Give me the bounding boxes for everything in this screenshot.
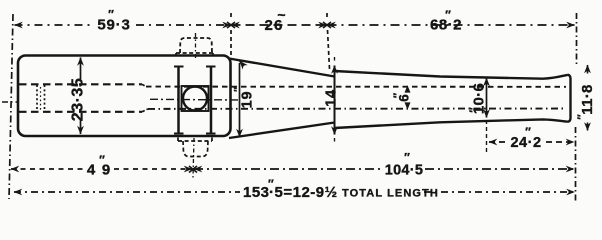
dim 19 vertical — [240, 61, 244, 66]
junction X at 231,25 — [227, 22, 235, 28]
centerline through trunnion — [150, 98, 240, 101]
junction X at 327,25 — [323, 22, 331, 28]
svg-text:4: 4 — [87, 162, 96, 179]
chamber step bottom — [142, 109, 148, 112]
total length line — [14, 191, 240, 193]
step face / dim 14 — [334, 66, 336, 135]
dim 11.8 arrows — [587, 65, 589, 74]
centerline left stub — [2, 101, 17, 103]
bore line bottom (chamber) — [19, 111, 142, 113]
svg-text:~: ~ — [277, 7, 285, 23]
right extension line lower — [575, 127, 577, 203]
dim 6 arrows — [405, 87, 409, 108]
bottom lug dashed — [178, 138, 212, 142]
extension below 10.6 — [486, 120, 488, 152]
svg-text:″: ″ — [468, 107, 480, 113]
bore line bottom (barrel) — [148, 108, 566, 110]
breech screw detail — [37, 85, 45, 112]
svg-text:14: 14 — [324, 89, 340, 107]
muzzle face — [568, 75, 571, 122]
top bump centerline — [195, 33, 197, 59]
junction J1 extension — [230, 13, 232, 60]
svg-text:″: ″ — [392, 92, 404, 98]
svg-text:104·5: 104·5 — [385, 163, 424, 179]
right extension line upper — [576, 13, 578, 64]
svg-text:153: 153 — [243, 184, 270, 201]
junction J2 extension — [327, 13, 330, 69]
bore line top (chamber) — [19, 83, 142, 85]
svg-text:″: ″ — [576, 114, 588, 120]
dim 24.2 line — [489, 141, 506, 143]
breech body — [18, 56, 231, 137]
dim 10.6 vertical — [486, 78, 488, 118]
chamber step top — [142, 84, 146, 86]
taper bottom edge — [229, 123, 335, 139]
svg-text:″: ″ — [525, 125, 531, 139]
dimension 68.2 top line — [328, 24, 575, 26]
svg-text:″: ″ — [404, 151, 410, 165]
dimension 26 top line — [232, 24, 327, 26]
svg-text:11·8: 11·8 — [579, 84, 596, 114]
svg-text:″: ″ — [99, 153, 105, 167]
bore line top (barrel) — [146, 86, 566, 88]
taper top edge — [229, 59, 335, 77]
svg-text:·5=12-9½: ·5=12-9½ — [269, 184, 338, 201]
dim 23.35 vertical — [80, 58, 82, 80]
svg-text:TOTAL LENGTH: TOTAL LENGTH — [342, 188, 439, 200]
bottom lug centerline — [193, 138, 194, 178]
svg-text:″: ″ — [108, 8, 114, 22]
svg-text:″: ″ — [445, 8, 451, 22]
barrel bottom edge — [335, 119, 568, 128]
svg-text:59·3: 59·3 — [97, 17, 130, 34]
dimension 59.3 top line — [15, 24, 93, 26]
left extension line — [9, 14, 13, 199]
trunnion square — [182, 86, 209, 111]
svg-text:19: 19 — [240, 91, 256, 109]
trunnion bars — [179, 66, 212, 134]
junction X at 193,169 — [189, 166, 197, 173]
barrel top edge — [335, 71, 568, 79]
dim 4"9 line — [11, 168, 83, 170]
dim 104.5 line — [194, 168, 384, 170]
top sight bump dashed — [176, 53, 213, 57]
svg-text:23·35: 23·35 — [70, 78, 87, 121]
trunnion circle — [183, 87, 207, 111]
